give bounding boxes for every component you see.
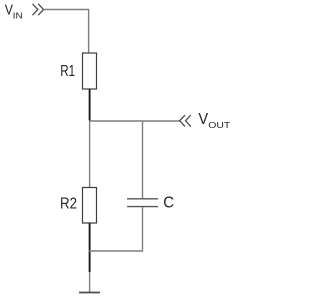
wire node down to R2 top: [89, 121, 91, 188]
svg-text:V: V: [198, 111, 208, 128]
wire capacitor branch from VOUT net: [142, 121, 144, 198]
svg-text:R1: R1: [60, 63, 75, 80]
net label VOUT: [198, 111, 230, 130]
svg-text:C: C: [163, 195, 174, 212]
net label VIN: [5, 2, 23, 21]
ground: [79, 292, 100, 294]
wire R2 bottom to lower junction (dark): [89, 223, 91, 272]
svg-text:R2: R2: [60, 196, 77, 213]
wire node to VOUT port: [89, 120, 180, 122]
svg-text:V: V: [5, 2, 13, 19]
input port chevron VIN: [33, 4, 44, 15]
output port chevron VOUT: [180, 115, 191, 126]
svg-text:IN: IN: [13, 11, 23, 21]
wire VIN to R1 top: [44, 10, 89, 54]
wire capacitor bottom to lower junction: [89, 207, 143, 251]
wire lower junction to ground: [89, 272, 91, 292]
resistor R2: [83, 188, 97, 224]
capacitor C: [127, 199, 158, 207]
svg-text:OUT: OUT: [208, 120, 230, 130]
resistor R1: [83, 53, 97, 89]
wire R1 bottom to node VOUT (dark): [89, 89, 91, 121]
